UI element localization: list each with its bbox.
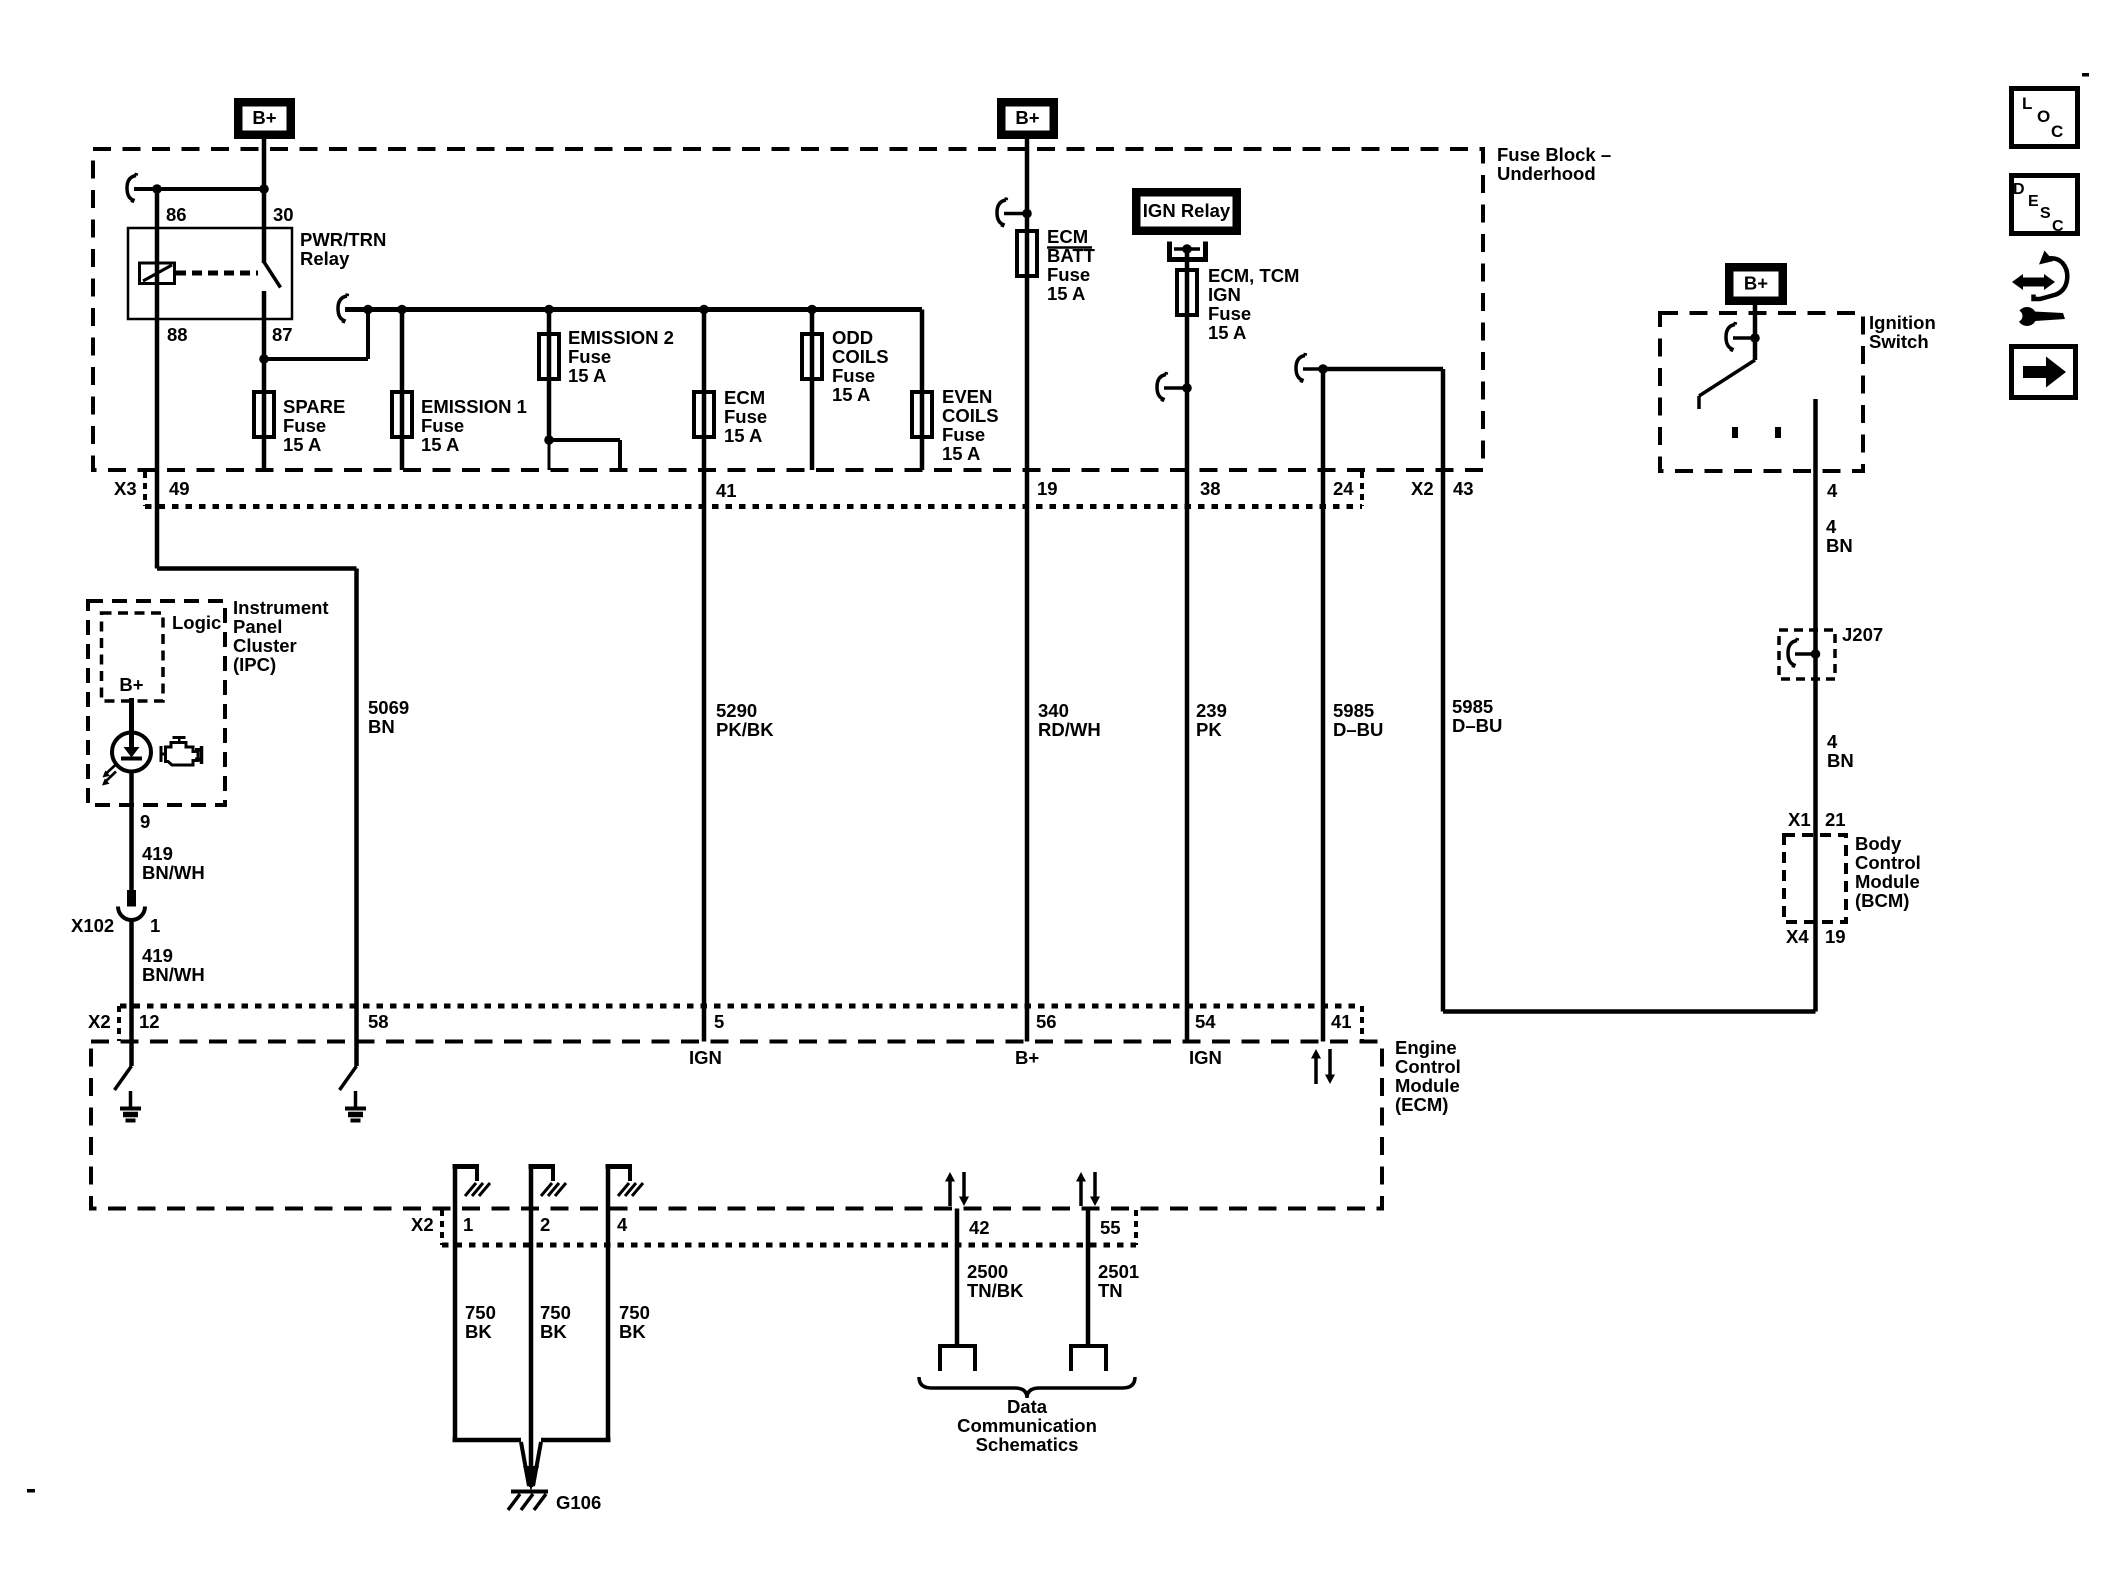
svg-text:41: 41 (716, 480, 737, 501)
svg-text:Logic: Logic (172, 612, 221, 633)
svg-text:Data: Data (1007, 1396, 1048, 1417)
svg-text:750: 750 (619, 1302, 650, 1323)
svg-text:IGN Relay: IGN Relay (1143, 200, 1231, 221)
svg-text:X2: X2 (88, 1011, 111, 1032)
svg-text:15 A: 15 A (724, 425, 762, 446)
svg-text:15 A: 15 A (942, 443, 980, 464)
svg-text:4: 4 (1826, 516, 1837, 537)
svg-text:2: 2 (540, 1214, 550, 1235)
svg-text:BN: BN (1826, 535, 1853, 556)
svg-text:1: 1 (150, 915, 160, 936)
svg-text:EMISSION 2: EMISSION 2 (568, 327, 674, 348)
svg-text:BN: BN (368, 716, 395, 737)
svg-text:86: 86 (166, 204, 187, 225)
svg-text:5: 5 (714, 1011, 724, 1032)
svg-text:Body: Body (1855, 833, 1902, 854)
svg-text:C: C (2052, 218, 2064, 235)
svg-text:COILS: COILS (832, 346, 889, 367)
svg-text:EVEN: EVEN (942, 386, 992, 407)
svg-text:D–BU: D–BU (1333, 719, 1383, 740)
svg-text:PWR/TRN: PWR/TRN (300, 229, 386, 250)
svg-text:(ECM): (ECM) (1395, 1094, 1448, 1115)
svg-text:COILS: COILS (942, 405, 999, 426)
svg-text:Fuse: Fuse (942, 424, 985, 445)
svg-text:2501: 2501 (1098, 1261, 1139, 1282)
svg-text:B+: B+ (1744, 273, 1768, 294)
svg-text:Fuse Block –: Fuse Block – (1497, 144, 1611, 165)
svg-text:BK: BK (540, 1321, 567, 1342)
svg-text:340: 340 (1038, 700, 1069, 721)
svg-text:B+: B+ (1015, 1047, 1039, 1068)
svg-text:Switch: Switch (1869, 331, 1929, 352)
svg-text:EMISSION 1: EMISSION 1 (421, 396, 527, 417)
svg-text:Engine: Engine (1395, 1037, 1457, 1058)
svg-text:24: 24 (1333, 478, 1354, 499)
svg-text:43: 43 (1453, 478, 1474, 499)
svg-text:5985: 5985 (1452, 696, 1493, 717)
svg-text:ECM: ECM (1047, 226, 1088, 247)
svg-text:88: 88 (167, 324, 188, 345)
svg-text:TN: TN (1098, 1280, 1123, 1301)
svg-text:750: 750 (540, 1302, 571, 1323)
svg-text:2500: 2500 (967, 1261, 1008, 1282)
svg-text:IGN: IGN (1208, 284, 1241, 305)
svg-text:Fuse: Fuse (283, 415, 326, 436)
svg-text:X3: X3 (114, 478, 137, 499)
svg-text:TN/BK: TN/BK (967, 1280, 1024, 1301)
svg-text:D–BU: D–BU (1452, 715, 1502, 736)
svg-text:4: 4 (1827, 480, 1838, 501)
svg-text:PK/BK: PK/BK (716, 719, 774, 740)
svg-text:Schematics: Schematics (976, 1434, 1079, 1455)
svg-text:RD/WH: RD/WH (1038, 719, 1101, 740)
svg-text:15 A: 15 A (568, 365, 606, 386)
svg-text:IGN: IGN (689, 1047, 722, 1068)
svg-text:58: 58 (368, 1011, 389, 1032)
svg-text:S: S (2040, 205, 2051, 222)
svg-text:BN/WH: BN/WH (142, 862, 205, 883)
svg-text:Cluster: Cluster (233, 635, 297, 656)
svg-text:Fuse: Fuse (1208, 303, 1251, 324)
svg-text:5069: 5069 (368, 697, 409, 718)
svg-text:9: 9 (140, 811, 150, 832)
svg-text:239: 239 (1196, 700, 1227, 721)
svg-text:Fuse: Fuse (421, 415, 464, 436)
svg-text:Fuse: Fuse (568, 346, 611, 367)
svg-text:15 A: 15 A (1047, 283, 1085, 304)
svg-text:419: 419 (142, 843, 173, 864)
svg-text:E: E (2028, 193, 2039, 210)
svg-text:Fuse: Fuse (1047, 264, 1090, 285)
svg-text:Fuse: Fuse (832, 365, 875, 386)
svg-text:(BCM): (BCM) (1855, 890, 1909, 911)
svg-text:PK: PK (1196, 719, 1222, 740)
svg-text:X102: X102 (71, 915, 114, 936)
svg-text:19: 19 (1825, 926, 1846, 947)
svg-text:Control: Control (1395, 1056, 1461, 1077)
svg-text:J207: J207 (1842, 624, 1883, 645)
svg-text:B+: B+ (1015, 107, 1039, 128)
svg-text:(IPC): (IPC) (233, 654, 276, 675)
svg-text:5290: 5290 (716, 700, 757, 721)
svg-text:X2: X2 (1411, 478, 1434, 499)
svg-text:15 A: 15 A (283, 434, 321, 455)
svg-text:Relay: Relay (300, 248, 350, 269)
svg-text:Instrument: Instrument (233, 597, 329, 618)
svg-text:19: 19 (1037, 478, 1058, 499)
svg-text:42: 42 (969, 1217, 990, 1238)
svg-text:Ignition: Ignition (1869, 312, 1936, 333)
svg-text:ODD: ODD (832, 327, 873, 348)
svg-text:X4: X4 (1786, 926, 1809, 947)
svg-text:Panel: Panel (233, 616, 282, 637)
svg-text:56: 56 (1036, 1011, 1057, 1032)
svg-text:G106: G106 (556, 1492, 601, 1513)
svg-text:49: 49 (169, 478, 190, 499)
svg-text:41: 41 (1331, 1011, 1352, 1032)
svg-text:IGN: IGN (1189, 1047, 1222, 1068)
svg-text:21: 21 (1825, 809, 1846, 830)
svg-text:BK: BK (465, 1321, 492, 1342)
svg-text:12: 12 (139, 1011, 160, 1032)
svg-text:15 A: 15 A (1208, 322, 1246, 343)
svg-text:55: 55 (1100, 1217, 1121, 1238)
svg-text:15 A: 15 A (832, 384, 870, 405)
svg-text:38: 38 (1200, 478, 1221, 499)
svg-text:30: 30 (273, 204, 294, 225)
svg-text:750: 750 (465, 1302, 496, 1323)
svg-text:D: D (2013, 181, 2025, 198)
svg-text:Module: Module (1395, 1075, 1460, 1096)
svg-text:Module: Module (1855, 871, 1920, 892)
svg-text:4: 4 (617, 1214, 628, 1235)
svg-text:Underhood: Underhood (1497, 163, 1596, 184)
svg-text:X2: X2 (411, 1214, 434, 1235)
svg-text:1: 1 (463, 1214, 473, 1235)
svg-text:BN/WH: BN/WH (142, 964, 205, 985)
svg-text:5985: 5985 (1333, 700, 1374, 721)
svg-text:419: 419 (142, 945, 173, 966)
svg-text:ECM: ECM (724, 387, 765, 408)
svg-text:54: 54 (1195, 1011, 1216, 1032)
svg-text:Control: Control (1855, 852, 1921, 873)
svg-text:Communication: Communication (957, 1415, 1097, 1436)
svg-text:X1: X1 (1788, 809, 1811, 830)
svg-text:87: 87 (272, 324, 293, 345)
svg-text:15 A: 15 A (421, 434, 459, 455)
svg-text:BN: BN (1827, 750, 1854, 771)
svg-text:L: L (2022, 94, 2032, 113)
svg-text:C: C (2051, 122, 2063, 141)
svg-text:BK: BK (619, 1321, 646, 1342)
svg-text:SPARE: SPARE (283, 396, 345, 417)
svg-text:O: O (2037, 107, 2050, 126)
svg-text:Fuse: Fuse (724, 406, 767, 427)
svg-text:ECM, TCM: ECM, TCM (1208, 265, 1299, 286)
svg-text:B+: B+ (252, 107, 276, 128)
svg-text:4: 4 (1827, 731, 1838, 752)
svg-text:B+: B+ (119, 674, 143, 695)
